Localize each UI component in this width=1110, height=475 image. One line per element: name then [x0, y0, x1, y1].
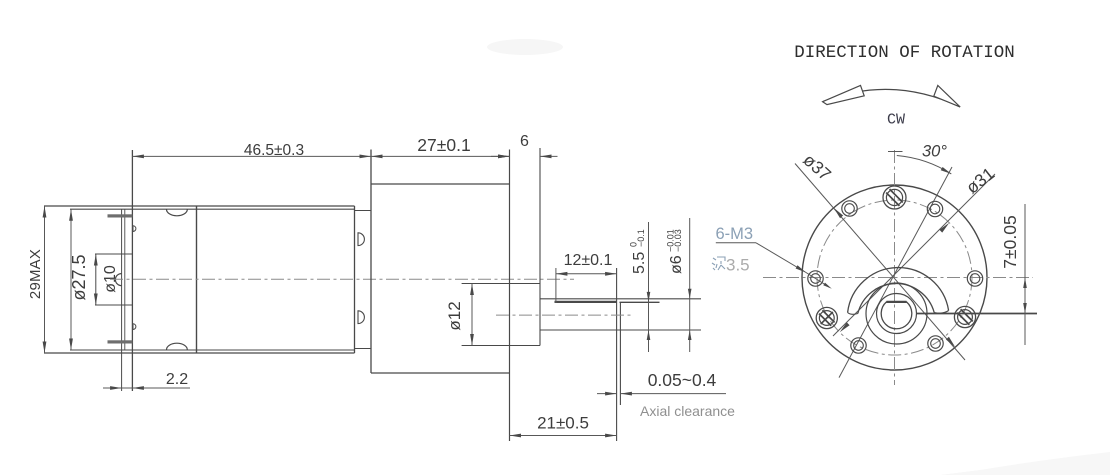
crescent inner arc [858, 284, 934, 314]
phi37 diameter line [795, 164, 965, 361]
bearing circle [877, 294, 917, 334]
motor endcap inner line [121, 209, 123, 391]
svg-text:ø37: ø37 [799, 150, 835, 185]
30 deg vertex tick [888, 151, 903, 153]
shaft end-play second line [619, 302, 621, 405]
phi31 arrowheads [939, 223, 949, 233]
svg-text:DIRECTION OF ROTATION: DIRECTION OF ROTATION [794, 43, 1015, 63]
depth 3.5 note text [712, 257, 725, 270]
svg-text:3.5: 3.5 [726, 256, 750, 275]
dim phi12 line [471, 284, 473, 346]
dim 27 line [371, 155, 510, 157]
gearbox top line [371, 183, 510, 185]
boss top line (with phi12 extension) [462, 283, 540, 285]
crimp bump lower [133, 324, 136, 330]
dim 12 line [556, 273, 617, 275]
crimp bump upper [133, 226, 136, 232]
svg-text:29MAX: 29MAX [27, 249, 44, 299]
svg-text:ø27.5: ø27.5 [69, 254, 89, 300]
svg-text:5.5: 5.5 [631, 252, 648, 274]
30 deg arc [897, 156, 952, 174]
dim 2.2 lines and arrows [103, 387, 190, 389]
dim phi6 line [689, 218, 691, 352]
boss right face (also extension for 6 dim) [539, 148, 541, 346]
dim 29MAX line [44, 206, 46, 353]
svg-text:ø6: ø6 [668, 255, 685, 274]
svg-text:12±0.1: 12±0.1 [564, 252, 613, 269]
output shaft circle with flat [881, 302, 912, 329]
svg-text:ø31: ø31 [962, 163, 998, 197]
svg-text:Axial clearance: Axial clearance [640, 403, 735, 419]
rear hub top line [95, 253, 132, 255]
M3 hole 5 [928, 336, 943, 351]
M3 hole 6 [967, 271, 982, 286]
top edge notch [167, 210, 188, 216]
motor can inner top line [70, 208, 355, 210]
front cap bottom line [355, 348, 372, 350]
motor can outer top line [44, 205, 355, 207]
6-M3 leader line [756, 243, 806, 273]
motor can right edge [354, 206, 356, 353]
crescent left horn [848, 313, 858, 315]
CW arc [823, 89, 961, 107]
dim 5.5 label (rotated with tolerances) [629, 229, 649, 274]
CW arrow right (open triangle) [934, 85, 960, 107]
6-M3 leader underline [716, 242, 756, 244]
svg-text:21±0.5: 21±0.5 [537, 414, 589, 433]
face vertical centerline [894, 150, 896, 385]
motor can inner bottom line [70, 349, 355, 351]
motor can outer bottom line [44, 352, 355, 354]
output axis centerline [496, 314, 634, 316]
shaft tip line (extension for 12/21/0.05 dims) [616, 268, 618, 441]
svg-text:0.05~0.4: 0.05~0.4 [648, 370, 717, 390]
shaft flat extension line (for 5.5 dim) [620, 301, 660, 303]
rear hub left edge / phi10 dim line [95, 254, 97, 305]
svg-text:7±0.05: 7±0.05 [1000, 215, 1020, 268]
svg-text:6-M3: 6-M3 [716, 225, 754, 243]
dim 46.5 line [132, 155, 371, 157]
can rear seam line [196, 206, 198, 353]
M3 hole 4 [851, 338, 866, 353]
dim 5.5 line [648, 222, 650, 352]
svg-text:30°: 30° [922, 143, 947, 161]
svg-text:27±0.1: 27±0.1 [417, 135, 470, 155]
boss bottom line (with phi12 extension) [462, 345, 540, 347]
svg-text:ø12: ø12 [445, 301, 464, 330]
phi37 arrowheads [834, 208, 843, 218]
phi10 dimension arrows [94, 254, 98, 266]
svg-text:CW: CW [887, 112, 905, 129]
shaft flat line (thick) [555, 301, 617, 303]
dim 0.05~0.4 lines [597, 393, 617, 395]
face horizontal centerline [763, 277, 1033, 279]
svg-text:−0.1: −0.1 [636, 229, 646, 247]
faint wash bottom-right [940, 452, 1110, 475]
svg-text:46.5±0.3: 46.5±0.3 [244, 142, 304, 159]
faint smudge top-center [487, 39, 563, 55]
gearbox right edge (also extension for 27/6/21 dims) [509, 150, 511, 442]
shaft top line (with phi6 extension) [540, 298, 701, 300]
dim 21 line [510, 435, 617, 437]
gearbox bottom line [371, 372, 510, 374]
bolt circle phi31 (dash-dot) [817, 200, 972, 355]
M3 hole 2 [842, 201, 857, 216]
terminal tab upper [108, 214, 133, 217]
dim phi6 label (rotated with tolerances) [666, 229, 686, 274]
svg-text:2.2: 2.2 [166, 371, 188, 388]
gearbox screw lower-right [954, 306, 975, 327]
terminal tab lower [108, 340, 133, 343]
M3 hole 3 [808, 271, 823, 286]
rear hub bottom line [95, 304, 132, 306]
7 dim line [1024, 204, 1026, 345]
front cap top line [355, 210, 372, 212]
phi31 leader line [833, 174, 995, 336]
output boss circle phi12 [866, 283, 927, 344]
M3 hole 1 [927, 201, 942, 216]
face view outer circle (phi37 body) [802, 185, 987, 370]
front cap tab upper [358, 233, 364, 246]
CW arrow left (open parallelogram) [823, 85, 865, 104]
crescent outer arc [848, 268, 949, 313]
construction line through holes (30 deg reference) [839, 167, 952, 378]
svg-text:6: 6 [520, 133, 529, 150]
shaft bottom line (with phi6/5.5 extension) [540, 329, 701, 331]
dim 12 extension line [555, 268, 557, 303]
7 dim extension line [917, 313, 1037, 315]
gearbox left edge (also extension line for 46.5/27 dims) [370, 150, 372, 374]
rear bearing half-circle [115, 274, 121, 286]
bottom edge notch [167, 343, 188, 349]
dim 6 lines [491, 155, 510, 157]
motor rear endcap face (can left edge, also extension line for 46.5 and 2.2 dims) [131, 150, 133, 391]
motor endcap second inner line [124, 209, 126, 350]
motor axis centerline [110, 278, 574, 280]
svg-text:−0.03: −0.03 [673, 229, 683, 252]
front cap tab lower [358, 311, 364, 324]
dim phi27.5 line [70, 209, 72, 350]
gearbox screw lower-left [816, 307, 837, 328]
crescent right horn [934, 311, 948, 314]
6-M3 leader continuation [806, 273, 829, 288]
gearbox screw top [883, 186, 906, 209]
